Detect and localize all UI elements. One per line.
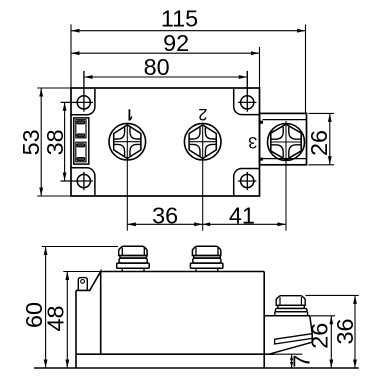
protrusion inner line bottom	[263, 158, 307, 160]
mounting hole bottom-right	[238, 172, 256, 190]
svg-text:41: 41	[229, 203, 255, 229]
svg-text:48: 48	[43, 305, 69, 331]
dim 48 line	[63, 272, 100, 369]
dim 115 line	[71, 24, 306, 113]
protrusion corner tick top-left	[260, 121, 263, 124]
svg-text:26: 26	[307, 323, 333, 349]
protrusion corner tick bottom-left	[260, 158, 263, 161]
dim 41 line	[203, 223, 286, 225]
terminal stack 3 (side view, on block)	[275, 296, 308, 316]
dim 36 line	[127, 223, 202, 225]
svg-text:26: 26	[306, 130, 332, 156]
svg-text:36: 36	[332, 318, 358, 344]
dim 38 line	[64, 102, 66, 181]
mounting hole bottom-left	[61, 172, 93, 190]
terminal stack 1 (side view)	[117, 246, 150, 271]
svg-text:53: 53	[18, 129, 44, 155]
dim 7 line	[274, 354, 303, 368]
dim 26 (top view) line	[309, 113, 335, 164]
dim 53 line	[37, 88, 71, 196]
baseplate	[76, 272, 274, 369]
terminal 1 (top view)	[109, 123, 146, 160]
mounting pocket bottom-right	[234, 169, 260, 197]
gate connector block	[74, 118, 89, 164]
dim 80 line	[84, 71, 247, 88]
terminal 3 centerline / extension to 41 dim	[285, 121, 287, 231]
terminal 3 (top view)	[268, 124, 305, 161]
protrusion inner line top	[263, 119, 307, 121]
terminal label 1	[129, 109, 131, 120]
mounting pocket bottom-left	[71, 168, 95, 196]
svg-text:7: 7	[288, 355, 314, 368]
svg-text:115: 115	[161, 5, 198, 31]
terminal 2 centerline / extension to 36/41 dim	[202, 125, 204, 231]
mounting pocket top-right	[234, 88, 260, 115]
svg-text:36: 36	[152, 203, 178, 229]
housing outline	[76, 272, 264, 355]
svg-text:80: 80	[144, 54, 170, 80]
terminal 2 (top view)	[184, 123, 221, 160]
terminal 1 centerline / extension to 36 dim	[126, 125, 128, 231]
dim 36 (side) line	[306, 295, 359, 368]
terminal stack 2 (side view)	[190, 246, 223, 271]
mounting hole top-left	[61, 71, 93, 112]
svg-text:92: 92	[163, 30, 189, 56]
dim 92 line	[71, 47, 260, 88]
svg-text:3: 3	[248, 133, 257, 151]
dim 26 (side) line	[311, 316, 335, 368]
svg-text:2: 2	[198, 105, 207, 123]
dim 60 line	[42, 247, 118, 369]
ground / bottom extension line	[34, 367, 359, 369]
svg-text:38: 38	[42, 129, 68, 155]
terminal block (side view) with cable clamp	[264, 316, 312, 354]
terminal block protrusion (top view)	[260, 113, 307, 164]
mounting hole top-right	[238, 71, 256, 112]
module body outline	[71, 88, 260, 196]
gate tab	[78, 278, 87, 291]
mounting pocket top-left	[71, 88, 95, 115]
